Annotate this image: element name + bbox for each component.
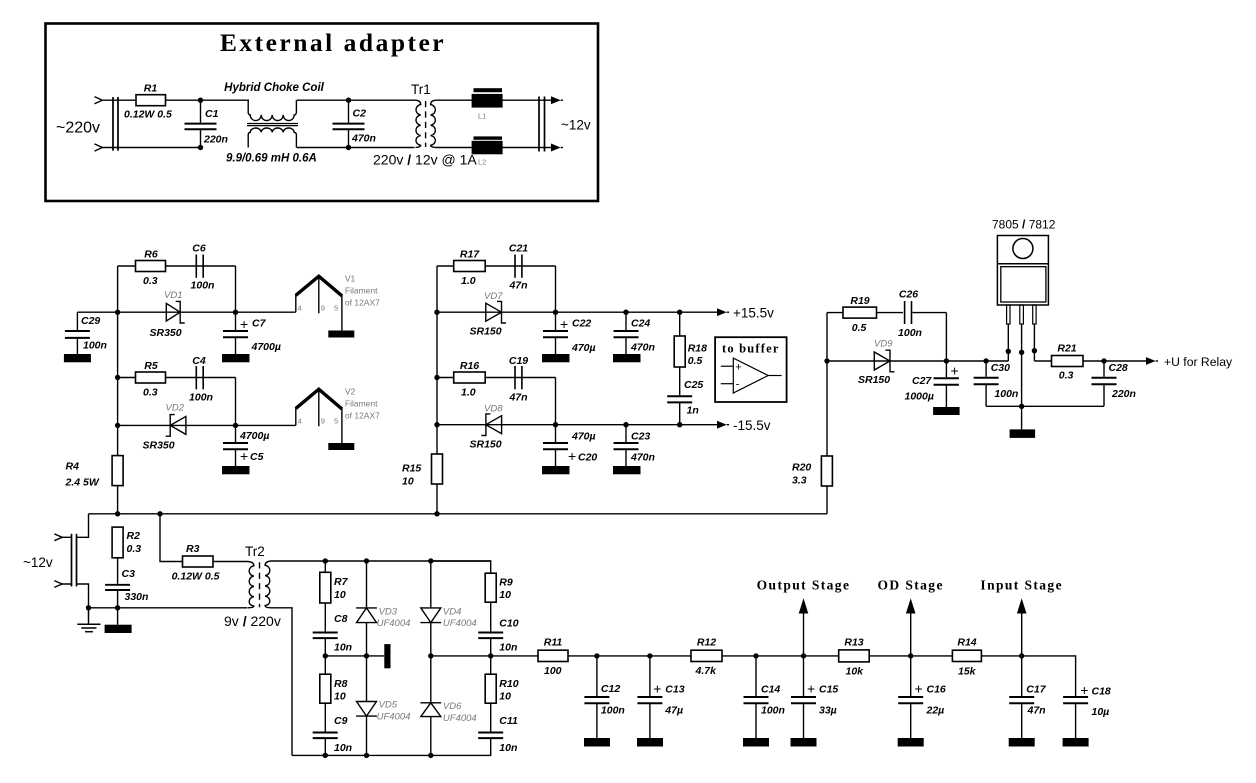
node rail2 mid-left (434, 310, 439, 315)
svg-text:+: + (560, 316, 568, 332)
svg-text:Hybrid Choke Coil: Hybrid Choke Coil (224, 82, 324, 94)
svg-text:C13: C13 (665, 684, 684, 696)
wire R13 to R14 (869, 655, 952, 657)
diode VD1 (150, 290, 185, 339)
node R18 top (677, 310, 682, 315)
svg-text:5: 5 (334, 304, 338, 313)
capacitor C25 (667, 367, 703, 425)
svg-text:UF4004: UF4004 (443, 618, 477, 629)
svg-text:R18: R18 (688, 343, 707, 355)
node C7 (233, 310, 238, 315)
node leg3 (1032, 348, 1037, 353)
node top rail R7 (323, 558, 328, 563)
svg-text:R11: R11 (544, 637, 563, 649)
svg-text:L1: L1 (478, 112, 486, 121)
svg-text:100n: 100n (189, 392, 213, 404)
capacitor C12 (584, 656, 624, 738)
svg-text:SR150: SR150 (470, 326, 502, 338)
svg-text:47n: 47n (508, 392, 527, 404)
node mid rail R10 (488, 653, 493, 658)
svg-text:470n: 470n (351, 133, 376, 145)
wire choke to C2 top (297, 99, 416, 101)
wire Tr2 top rail (271, 560, 491, 562)
wire R14 to C18 (981, 656, 1075, 696)
node lower rail left (86, 605, 91, 610)
wire Tr1 to L2 (436, 147, 551, 149)
input chevron bottom (54, 581, 62, 588)
label Tr2 (245, 544, 265, 559)
svg-text:C30: C30 (991, 362, 1010, 374)
node mid rail VD4 (428, 653, 433, 658)
capacitor C8 (313, 603, 352, 656)
svg-text:+: + (1080, 682, 1088, 698)
svg-text:VD5: VD5 (379, 700, 398, 711)
svg-text:+: + (653, 681, 661, 697)
svg-text:V2: V2 (345, 387, 356, 397)
wire R12 to R13 (722, 655, 839, 657)
svg-text:C27: C27 (912, 375, 932, 387)
wire C26 right down (945, 313, 947, 361)
svg-text:C17: C17 (1026, 684, 1046, 696)
svg-text:33µ: 33µ (819, 705, 837, 717)
svg-text:0.5: 0.5 (688, 355, 703, 367)
svg-text:C20: C20 (578, 452, 597, 464)
arrow +15.5v (717, 306, 774, 321)
label ~12v input (23, 555, 53, 570)
svg-text:100n: 100n (761, 705, 785, 717)
diode VD9 (858, 339, 895, 387)
svg-text:9.9/0.69 mH 0.6A: 9.9/0.69 mH 0.6A (226, 153, 317, 165)
svg-text:C23: C23 (631, 431, 650, 443)
wire R1 to C1 node (166, 99, 250, 101)
wire rail4 (118, 424, 296, 426)
resistor R2 (112, 527, 141, 558)
resistor R18 (674, 312, 707, 367)
capacitor C15 (791, 656, 838, 738)
wire main bus (89, 513, 828, 515)
ground C29 (64, 354, 91, 362)
wire input top (102, 99, 136, 101)
capacitor C13 (637, 656, 684, 738)
wire lower rail to Tr2 (89, 607, 248, 609)
node C1 top (198, 98, 203, 103)
svg-text:470n: 470n (630, 342, 655, 354)
svg-text:47µ: 47µ (664, 705, 683, 717)
svg-text:UF4004: UF4004 (377, 618, 411, 629)
wire C21 right down (555, 266, 557, 312)
svg-text:to buffer: to buffer (722, 342, 780, 356)
resistor R20 (792, 361, 832, 487)
regulator legs (1007, 305, 1037, 406)
svg-text:R9: R9 (499, 577, 513, 589)
label 7805/7812 (992, 218, 1056, 232)
svg-text:0.12W 0.5: 0.12W 0.5 (172, 571, 220, 583)
node C16 OD stage (908, 653, 913, 658)
node rail4 left (115, 423, 120, 428)
wire regulator output rail (1034, 360, 1146, 362)
svg-text:VD4: VD4 (443, 607, 461, 618)
ground C27 (933, 407, 960, 415)
capacitor C10 (478, 602, 519, 656)
wire input top to bus (62, 514, 88, 538)
tube V2 filament (296, 387, 380, 444)
label ~12v adapter output (561, 118, 591, 133)
svg-text:0.12W 0.5: 0.12W 0.5 (124, 109, 172, 121)
svg-text:C10: C10 (499, 618, 518, 630)
diode VD2 (143, 403, 186, 452)
transformer Tr1 secondary winding (431, 100, 436, 147)
wire C8 to VD node (325, 655, 384, 657)
ground C16 (898, 738, 924, 747)
svg-text:OD Stage: OD Stage (878, 578, 944, 593)
node R5 left (115, 375, 120, 380)
svg-text:0.3: 0.3 (127, 543, 142, 555)
svg-text:VD3: VD3 (379, 607, 398, 618)
node C14 (753, 653, 758, 658)
arrow OD Stage (878, 578, 944, 656)
regulator U2 TO-220 package (997, 236, 1048, 306)
svg-text:R21: R21 (1057, 343, 1076, 355)
capacitor C7 (223, 312, 281, 354)
node C13 (647, 653, 652, 658)
node bottom rail VD6 (428, 753, 433, 758)
svg-text:10n: 10n (499, 642, 517, 654)
wire mid rail VD4 to R11 (431, 655, 538, 657)
svg-text:C25: C25 (684, 379, 703, 391)
node bottom rail VD5 (364, 753, 369, 758)
capacitor C20 (543, 425, 597, 466)
svg-text:0.3: 0.3 (1059, 370, 1074, 382)
resistor R12 (691, 637, 722, 678)
resistor R7 (320, 561, 349, 603)
capacitor C4 (189, 355, 213, 404)
svg-text:1.0: 1.0 (461, 387, 476, 399)
capacitor C17 (1009, 656, 1047, 738)
svg-text:R13: R13 (844, 637, 863, 649)
resistor R16 (454, 360, 486, 399)
resistor R9 (485, 573, 513, 602)
input chevron top (54, 534, 62, 541)
ground C13 (637, 738, 663, 747)
node C17 input stage (1019, 653, 1024, 658)
svg-text:R8: R8 (334, 678, 348, 690)
svg-text:~12v: ~12v (561, 118, 591, 133)
wire R20 to bus (826, 486, 828, 514)
node ground mid (1019, 404, 1024, 409)
svg-text:100n: 100n (191, 280, 215, 292)
svg-text:+15.5v: +15.5v (733, 306, 774, 321)
svg-text:4700µ: 4700µ (239, 430, 269, 442)
wire regulator input rail (827, 360, 1008, 362)
svg-text:Tr2: Tr2 (245, 544, 265, 559)
capacitor C28 (1092, 361, 1136, 406)
svg-text:4: 4 (298, 304, 302, 313)
wire left main vertical (117, 266, 119, 456)
node C20 (553, 422, 558, 427)
svg-text:C11: C11 (499, 715, 518, 727)
label Tr2 ratio (224, 613, 281, 629)
svg-text:C19: C19 (509, 355, 528, 367)
svg-text:220v / 12v @ 1A: 220v / 12v @ 1A (373, 152, 477, 168)
svg-text:47n: 47n (1027, 705, 1046, 717)
title External adapter (220, 28, 446, 57)
node C12 (594, 653, 599, 658)
diode VD6 (420, 656, 476, 756)
node leg2 (1019, 350, 1024, 355)
wire top rail bend to R9 (431, 561, 491, 573)
svg-text:4: 4 (298, 417, 302, 426)
resistor R6 (136, 249, 166, 288)
svg-text:R1: R1 (144, 83, 158, 95)
wire R11 to R12 (568, 655, 691, 657)
svg-text:C29: C29 (81, 315, 100, 327)
to buffer box (715, 337, 787, 402)
output arrow bottom (551, 144, 563, 152)
capacitor C22 (543, 312, 596, 354)
wire C19 right down (555, 378, 557, 425)
svg-text:5: 5 (334, 417, 338, 426)
wire R19 branch vertical (826, 313, 828, 361)
svg-text:1000µ: 1000µ (905, 391, 934, 403)
earth ground (77, 608, 100, 632)
svg-text:C12: C12 (601, 683, 620, 695)
choke core lines (247, 124, 298, 126)
svg-text:Input Stage: Input Stage (980, 578, 1063, 593)
input terminal bottom chevron (95, 144, 103, 151)
svg-text:C24: C24 (631, 318, 650, 330)
node R19 bottom (824, 358, 829, 363)
svg-text:of 12AX7: of 12AX7 (345, 411, 380, 421)
connector black bar (384, 644, 390, 668)
svg-text:9v / 220v: 9v / 220v (224, 613, 281, 629)
capacitor C30 (974, 361, 1019, 406)
diode VD3 (356, 561, 410, 656)
ground C22 (542, 354, 570, 362)
input double bar 12v (72, 534, 77, 587)
capacitor C21 (508, 243, 528, 292)
svg-text:R7: R7 (334, 576, 349, 588)
svg-text:C28: C28 (1109, 362, 1128, 374)
svg-text:0.5: 0.5 (852, 322, 867, 334)
svg-text:+: + (951, 363, 959, 379)
label choke value (226, 153, 317, 165)
resistor R13 (839, 637, 870, 678)
svg-text:SR150: SR150 (470, 439, 502, 451)
svg-text:R5: R5 (144, 360, 158, 372)
wire R17 rail (437, 265, 556, 267)
svg-text:100n: 100n (898, 327, 922, 339)
ground V1 (328, 331, 354, 338)
resistor R14 (952, 637, 981, 678)
capacitor C1 (185, 100, 228, 147)
svg-text:4.7k: 4.7k (695, 665, 718, 677)
svg-text:R2: R2 (127, 530, 141, 542)
svg-text:10n: 10n (334, 642, 352, 654)
node rail4 mid-left (434, 422, 439, 427)
svg-text:VD9: VD9 (874, 339, 893, 350)
svg-text:-15.5v: -15.5v (733, 418, 771, 433)
op-amp U1 (721, 358, 782, 393)
ground C17 (1009, 738, 1035, 747)
svg-text:+: + (240, 448, 248, 464)
svg-text:C21: C21 (509, 243, 528, 255)
svg-text:+: + (807, 681, 815, 697)
svg-text:0.3: 0.3 (143, 275, 158, 287)
svg-text:C1: C1 (205, 108, 219, 120)
svg-text:1n: 1n (687, 405, 699, 417)
node bottom rail C9 (323, 753, 328, 758)
wire middle main vertical (436, 266, 438, 454)
svg-text:R3: R3 (186, 543, 200, 555)
label ~220v (56, 120, 100, 137)
capacitor C2 (333, 100, 376, 147)
wire +12 rail upper (77, 311, 295, 313)
node bus R3 (157, 511, 162, 516)
svg-text:C3: C3 (122, 568, 136, 580)
svg-text:C8: C8 (334, 613, 348, 625)
node C1 bottom (198, 145, 203, 150)
node C30 (983, 358, 988, 363)
resistor R15 (402, 454, 443, 488)
svg-text:VD8: VD8 (484, 404, 503, 415)
arrow Output Stage (757, 578, 851, 656)
svg-text:330n: 330n (125, 591, 149, 603)
svg-text:C9: C9 (334, 715, 348, 727)
svg-text:10n: 10n (334, 742, 352, 754)
node leg1 (1006, 349, 1011, 354)
svg-text:1.0: 1.0 (461, 275, 476, 287)
transformer Tr2 primary winding (248, 562, 254, 608)
svg-text:V1: V1 (345, 274, 356, 284)
resistor R4 (65, 456, 124, 489)
svg-text:R19: R19 (850, 295, 869, 307)
svg-text:100n: 100n (994, 388, 1018, 400)
node C25 bottom (677, 422, 682, 427)
svg-text:C22: C22 (572, 318, 591, 330)
capacitor C24 (614, 312, 655, 354)
resistor R3 (172, 543, 220, 583)
svg-text:10µ: 10µ (1092, 706, 1110, 718)
label Tr1 ratio (373, 152, 477, 168)
svg-text:SR150: SR150 (858, 374, 890, 386)
ground C7 (222, 354, 250, 362)
svg-text:10: 10 (334, 589, 346, 601)
capacitor C6 (191, 243, 215, 292)
choke coil top winding (248, 100, 296, 120)
wire R5 rail (118, 377, 236, 379)
diode VD7 (470, 291, 507, 338)
svg-text:C2: C2 (353, 108, 367, 120)
svg-text:R14: R14 (957, 637, 976, 649)
svg-text:Tr1: Tr1 (411, 82, 431, 97)
svg-text:470n: 470n (630, 452, 655, 464)
svg-text:+: + (915, 681, 923, 697)
transformer Tr2 secondary winding (265, 561, 271, 608)
svg-text:-: - (736, 378, 740, 390)
resistor R1 (124, 83, 172, 121)
node top rail VD3 (364, 558, 369, 563)
svg-text:R4: R4 (66, 461, 80, 473)
wire R15 to bus (436, 484, 438, 514)
wire R6 rail (118, 265, 236, 267)
svg-text:VD1: VD1 (164, 290, 182, 301)
svg-text:+U for Relay: +U for Relay (1164, 355, 1233, 369)
svg-text:3.3: 3.3 (792, 475, 807, 487)
wire bottom rail (292, 754, 431, 756)
wire R3 to Tr2 (213, 561, 248, 563)
svg-text:UF4004: UF4004 (443, 713, 477, 724)
adapter enclosure frame (46, 24, 599, 202)
svg-text:L2: L2 (478, 158, 486, 167)
resistor R11 (538, 637, 568, 678)
transformer Tr2 core dashed (259, 562, 261, 607)
node top rail VD4 (428, 558, 433, 563)
svg-text:C15: C15 (819, 684, 838, 696)
svg-text:10: 10 (499, 589, 511, 601)
capacitor C19 (508, 355, 528, 404)
svg-text:UF4004: UF4004 (377, 712, 411, 723)
svg-text:+: + (240, 316, 248, 332)
inductor L1 (472, 88, 503, 120)
inductor L2 (472, 136, 503, 166)
node C23 (623, 422, 628, 427)
svg-text:100: 100 (544, 665, 562, 677)
svg-text:22µ: 22µ (926, 705, 945, 717)
svg-text:10: 10 (499, 691, 511, 703)
tube V1 filament (296, 274, 380, 331)
ground C14 (743, 738, 769, 747)
svg-text:220n: 220n (203, 134, 228, 146)
svg-text:R20: R20 (792, 462, 811, 474)
svg-text:100n: 100n (83, 340, 107, 352)
svg-text:of 12AX7: of 12AX7 (345, 298, 380, 308)
ground C3 (105, 625, 132, 633)
svg-text:R17: R17 (460, 249, 480, 261)
svg-text:R16: R16 (460, 360, 479, 372)
wire Tr2 bottom to bridge left (271, 608, 292, 756)
svg-text:9: 9 (321, 304, 325, 313)
choke coil bottom winding (248, 128, 296, 148)
ground V2 (328, 443, 354, 450)
node mid rail VD3 (364, 653, 369, 658)
capacitor C26 (898, 289, 946, 340)
capacitor C23 (614, 425, 655, 466)
resistor R10 (485, 656, 519, 703)
svg-text:VD7: VD7 (484, 291, 503, 302)
resistor R17 (454, 249, 486, 288)
resistor R5 (136, 360, 166, 399)
node bus R15 (434, 511, 439, 516)
svg-text:+: + (568, 448, 576, 464)
node C2 top (346, 98, 351, 103)
capacitor C5 (223, 425, 269, 466)
svg-text:100n: 100n (601, 705, 625, 717)
svg-text:10n: 10n (499, 742, 517, 754)
node rail2 left (115, 310, 120, 315)
ground C20 (542, 466, 570, 474)
node C5 (233, 423, 238, 428)
output arrow top (551, 96, 563, 104)
resistor R21 (1052, 343, 1084, 382)
svg-text:4700µ: 4700µ (251, 341, 281, 353)
ground C12 (584, 738, 610, 747)
svg-text:Output Stage: Output Stage (757, 578, 851, 593)
wire choke to C2 bottom (297, 147, 415, 149)
transformer Tr1 primary winding (416, 100, 421, 147)
capacitor C29 (65, 312, 107, 354)
svg-text:Filament: Filament (345, 399, 378, 409)
svg-text:R12: R12 (697, 637, 716, 649)
